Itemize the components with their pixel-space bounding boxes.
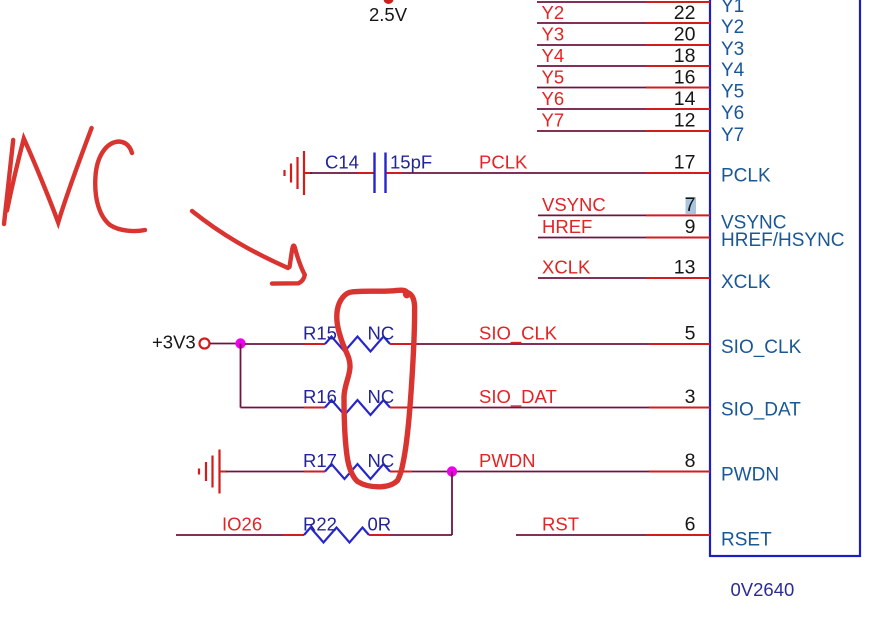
svg-text:R22: R22 (303, 514, 337, 535)
svg-text:Y7: Y7 (721, 125, 744, 146)
svg-text:R16: R16 (303, 386, 337, 407)
wire Y7 (537, 130, 710, 132)
svg-text:PWDN: PWDN (479, 450, 536, 471)
resistor R16 (325, 400, 390, 415)
svg-text:Y7: Y7 (542, 110, 565, 131)
junction dot A (235, 338, 245, 348)
svg-text:Y4: Y4 (721, 60, 745, 81)
svg-text:HREF/HSYNC: HREF/HSYNC (721, 230, 845, 251)
annotation hand-drawn NC letter N (4, 128, 92, 224)
svg-text:C14: C14 (325, 152, 359, 173)
svg-text:Y4: Y4 (542, 45, 565, 66)
svg-text:NC: NC (368, 323, 395, 344)
svg-text:17: 17 (674, 152, 696, 174)
node +3V3 terminal circle (200, 339, 210, 349)
svg-text:Y2: Y2 (542, 2, 565, 23)
svg-text:0V2640: 0V2640 (731, 579, 795, 600)
wire PWDN (390, 471, 710, 473)
svg-text:8: 8 (685, 450, 696, 472)
svg-text:SIO_DAT: SIO_DAT (479, 386, 557, 408)
svg-text:9: 9 (685, 216, 696, 238)
svg-text:R17: R17 (303, 450, 337, 471)
wire R22 to junction B (369, 534, 452, 536)
svg-text:PCLK: PCLK (721, 166, 771, 187)
wire junction to R15 (245, 343, 325, 345)
svg-text:SIO_CLK: SIO_CLK (479, 323, 558, 345)
wire R17 left (220, 471, 325, 473)
wire IO26 to R22 (176, 534, 304, 536)
wire junction down to R16 row (240, 344, 242, 408)
pin 7 highlight (686, 197, 697, 214)
svg-text:Y6: Y6 (542, 88, 565, 109)
svg-text:XCLK: XCLK (721, 272, 771, 293)
node 2.5V power dot (384, 0, 394, 4)
resistor R22 (304, 528, 369, 543)
svg-text:Y3: Y3 (542, 24, 565, 45)
svg-text:PCLK: PCLK (479, 152, 528, 173)
wire RST (516, 534, 710, 536)
svg-text:SIO_CLK: SIO_CLK (721, 337, 802, 358)
wire Y3 (537, 44, 710, 46)
svg-text:VSYNC: VSYNC (542, 194, 606, 215)
svg-text:NC: NC (368, 386, 395, 407)
wire R16 left (241, 407, 326, 409)
svg-text:20: 20 (674, 24, 696, 46)
svg-text:3: 3 (685, 386, 696, 408)
svg-text:RST: RST (542, 514, 579, 535)
annotation hand-drawn NC letter C (95, 142, 145, 232)
annotation hand-drawn arrow (192, 211, 305, 284)
svg-text:RSET: RSET (721, 530, 772, 551)
svg-text:7: 7 (685, 194, 696, 216)
junction dot B (447, 466, 457, 476)
svg-text:R15: R15 (303, 323, 337, 344)
svg-text:XCLK: XCLK (542, 257, 591, 278)
IC U1 OV2640 camera connector box (710, 0, 860, 556)
svg-text:5: 5 (685, 323, 696, 345)
wire XCLK (538, 277, 710, 279)
svg-text:Y5: Y5 (542, 67, 565, 88)
capacitor C14 (375, 153, 386, 194)
wire VSYNC (538, 214, 710, 216)
svg-text:0R: 0R (368, 514, 392, 535)
wire SIO_CLK (390, 343, 710, 345)
svg-text:Y6: Y6 (721, 103, 744, 124)
wire Y1 (537, 1, 710, 3)
svg-text:Y2: Y2 (721, 17, 744, 38)
svg-text:18: 18 (674, 45, 696, 67)
wire +3V3 to junction (210, 343, 236, 345)
wire HREF (538, 237, 710, 239)
svg-text:15pF: 15pF (390, 152, 432, 173)
svg-text:Y3: Y3 (721, 39, 744, 60)
svg-text:HREF: HREF (542, 216, 592, 237)
ground G2 (199, 450, 220, 494)
wire Y5 (537, 87, 710, 89)
svg-text:NC: NC (368, 450, 395, 471)
svg-text:13: 13 (674, 257, 696, 279)
resistor R15 (325, 337, 390, 352)
wire SIO_DAT (390, 407, 710, 409)
svg-text:SIO_DAT: SIO_DAT (721, 400, 801, 421)
svg-text:16: 16 (674, 67, 696, 89)
annotation hand-drawn loop around NC resistors (337, 290, 415, 487)
svg-text:+3V3: +3V3 (152, 332, 196, 353)
wire Y2 (537, 22, 710, 24)
resistor R17 (325, 464, 390, 479)
svg-text:PWDN: PWDN (721, 465, 779, 486)
svg-text:12: 12 (674, 110, 696, 132)
svg-text:6: 6 (685, 514, 696, 536)
wire PCLK right (387, 172, 711, 174)
wire Y6 (537, 108, 710, 110)
ground G1 (285, 151, 305, 195)
svg-text:Y5: Y5 (721, 82, 744, 103)
svg-text:IO26: IO26 (222, 514, 262, 535)
svg-text:Y1: Y1 (721, 0, 744, 17)
svg-text:2.5V: 2.5V (369, 4, 408, 25)
svg-text:14: 14 (674, 88, 696, 110)
wire PCLK left (305, 172, 374, 174)
svg-text:22: 22 (674, 2, 696, 24)
wire junction B down to R22 row (451, 472, 453, 536)
wire Y4 (537, 65, 710, 67)
